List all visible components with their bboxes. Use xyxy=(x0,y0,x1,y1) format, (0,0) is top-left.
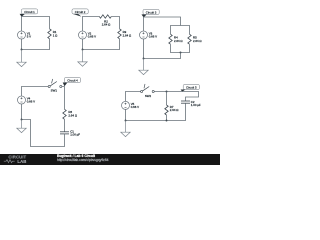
junction R7 bottom xyxy=(166,120,168,122)
capacitor C2 xyxy=(181,100,201,107)
junction circuit 4 xyxy=(21,119,23,121)
ground circuit 2 xyxy=(78,50,87,67)
svg-text:Circuit 3: Circuit 3 xyxy=(146,10,157,14)
svg-text:2.64 Ω: 2.64 Ω xyxy=(174,39,183,43)
wire circuit 3 top xyxy=(144,17,181,31)
label Circuit 1 xyxy=(20,9,38,17)
wire circuit 1 top xyxy=(22,17,50,32)
svg-text:0.66 V: 0.66 V xyxy=(88,35,96,39)
svg-text:SW2: SW2 xyxy=(145,94,152,98)
svg-text:2.64 Ω: 2.64 Ω xyxy=(68,114,77,118)
svg-text:LAB: LAB xyxy=(17,159,26,164)
wire R6 to C1 xyxy=(64,119,66,132)
switch SW1 xyxy=(48,79,62,93)
junction circuit 2 xyxy=(82,49,84,51)
resistor R6 xyxy=(63,109,78,119)
resistor R1 xyxy=(48,29,58,39)
voltage source V5 xyxy=(122,101,140,109)
wire V4 bottom lead xyxy=(21,104,23,120)
svg-text:0.66 V: 0.66 V xyxy=(149,35,157,39)
resistor R5 xyxy=(188,34,203,44)
wire R7 bottom lead xyxy=(166,115,168,121)
wire block to source xyxy=(144,53,181,59)
svg-text:0.66 V: 0.66 V xyxy=(131,105,139,109)
wire R7 top lead xyxy=(166,92,168,106)
wire circuit 2 bottom xyxy=(83,39,120,50)
footer bar xyxy=(0,154,220,165)
wire C1 to bottom loop xyxy=(22,120,65,147)
ground circuit 4 xyxy=(17,120,26,133)
label Circuit 5 xyxy=(181,85,200,92)
junction circuit 5 xyxy=(125,120,127,122)
switch SW2 xyxy=(141,84,155,98)
svg-text:2.64 Ω: 2.64 Ω xyxy=(123,34,132,38)
svg-text:Circuit 1: Circuit 1 xyxy=(24,10,35,14)
voltage source V4 xyxy=(18,96,36,104)
resistor R3 xyxy=(118,29,132,39)
wire switch to corner xyxy=(154,92,198,102)
wire circuit 5 top left xyxy=(126,92,141,102)
svg-text:Circuit 5: Circuit 5 xyxy=(186,85,197,89)
svg-text:Circuit 2: Circuit 2 xyxy=(75,10,86,14)
wire circuit 4 top left xyxy=(22,87,49,97)
ground circuit 3 xyxy=(139,59,148,75)
wire V3 bottom lead xyxy=(143,39,145,59)
voltage source V1 xyxy=(18,31,32,39)
capacitor C1 xyxy=(60,129,80,136)
junction block bottom xyxy=(180,52,182,54)
svg-text:2.64 Ω: 2.64 Ω xyxy=(170,108,179,112)
wire circuit 2 top right xyxy=(111,17,119,29)
ground circuit 5 xyxy=(121,121,130,137)
resistor R7 xyxy=(165,105,179,115)
wire circuit 2 top left xyxy=(83,17,100,32)
junction R7 top xyxy=(166,91,168,93)
svg-text:1.00 µF: 1.00 µF xyxy=(70,133,80,137)
junction circuit 3 xyxy=(143,58,145,60)
svg-text:http://circuitlab.com/c/pbvugq: http://circuitlab.com/c/pbvugqy9z64 xyxy=(57,158,109,162)
svg-text:0.66 V: 0.66 V xyxy=(27,100,35,104)
wire switch to R6 xyxy=(62,87,65,110)
CircuitLab logo xyxy=(4,154,27,164)
svg-text:2.64 Ω: 2.64 Ω xyxy=(102,23,111,27)
voltage source V2 xyxy=(79,31,97,39)
svg-text:5 V: 5 V xyxy=(27,35,31,39)
svg-text:Circuit 4: Circuit 4 xyxy=(67,78,78,82)
wire V1 bottom lead xyxy=(22,39,50,50)
label Circuit 3 xyxy=(142,9,160,17)
wire parallel block top xyxy=(171,26,190,35)
resistor R2 xyxy=(99,15,111,27)
svg-text:1.00 µF: 1.00 µF xyxy=(191,103,201,107)
svg-text:2.64 Ω: 2.64 Ω xyxy=(193,39,202,43)
wire V2 bottom lead xyxy=(82,39,84,50)
wire circuit 5 bottom xyxy=(126,103,186,120)
label Circuit 4 xyxy=(63,78,81,87)
wire parallel block bottom xyxy=(171,44,190,52)
voltage source V3 xyxy=(140,31,158,39)
resistor R4 xyxy=(169,34,184,44)
junction circuit 1 xyxy=(21,49,23,51)
label Circuit 2 xyxy=(72,9,88,17)
svg-text:SW1: SW1 xyxy=(51,88,58,92)
wire V5 bottom lead xyxy=(125,109,127,120)
ground circuit 1 xyxy=(17,50,26,67)
